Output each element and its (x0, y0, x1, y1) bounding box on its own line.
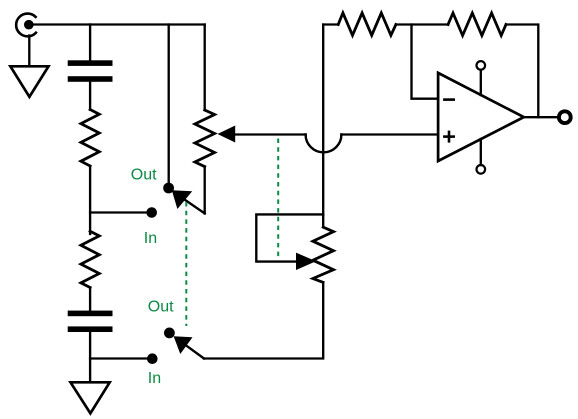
node Out1 (163, 183, 174, 194)
switch S1 lever (184, 199, 205, 213)
power pin V- (477, 139, 486, 174)
svg-text:In: In (148, 370, 161, 387)
wire Ra to node (89, 166, 91, 234)
input connector J1 (16, 14, 36, 37)
svg-text:In: In (144, 230, 157, 247)
node Out2 (164, 328, 175, 339)
ground (10, 66, 48, 97)
svg-text:Out: Out (148, 299, 174, 316)
wire P2 bottom to switch (204, 282, 323, 358)
wire feedback right (506, 25, 538, 118)
wire P2 top stem (322, 214, 324, 227)
output terminal (559, 111, 571, 123)
resistor Rb (81, 231, 99, 287)
wire top from connector (32, 23, 205, 25)
potentiometer P2 wiper arrow (296, 253, 316, 270)
switch S1 arrowhead (172, 190, 192, 209)
potentiometer P1 wiper arrow (218, 126, 236, 143)
op-amp U1 (438, 73, 524, 161)
resistor R3 (338, 13, 396, 35)
wire output (524, 116, 557, 118)
node In2 (147, 353, 158, 364)
resistor R4 (448, 13, 506, 36)
wire feedback top left (323, 23, 338, 25)
wire C2 to ground (89, 332, 91, 382)
wire Rb to C2 (89, 288, 91, 311)
power pin V+ (477, 61, 486, 95)
switch S2 arrowhead (174, 336, 193, 354)
ganged link dashed 1 (185, 202, 187, 326)
wire to Out1 contact (168, 25, 170, 184)
wire feedback left vertical (322, 25, 324, 215)
wire In1 stub (90, 211, 150, 213)
wire plus input left (234, 133, 306, 135)
capacitor C2 (68, 311, 113, 332)
op-amp plus sign (444, 132, 453, 141)
ganged link dashed 2 (277, 139, 279, 259)
wire P1 bottom (204, 167, 206, 214)
wire minus branch (412, 25, 439, 99)
wire C1 branch (89, 25, 91, 61)
resistor Ra (81, 110, 99, 167)
capacitor C1 (68, 60, 113, 81)
switch S2 lever (186, 345, 204, 358)
wire plus input right (341, 133, 438, 135)
wire C1 to Ra (89, 82, 91, 110)
wire hop under (306, 135, 342, 153)
wire P2 wiper loop (256, 214, 323, 261)
wire In2 stub (90, 357, 150, 359)
potentiometer P2 (313, 227, 334, 282)
potentiometer P1 stem (204, 25, 206, 111)
op-amp minus sign (444, 98, 453, 101)
node In1 (146, 207, 157, 218)
ground (71, 382, 110, 413)
wire connector stem (28, 36, 30, 67)
wire feedback mid (396, 23, 448, 25)
svg-text:Out: Out (131, 166, 157, 183)
potentiometer P1 (195, 110, 215, 167)
